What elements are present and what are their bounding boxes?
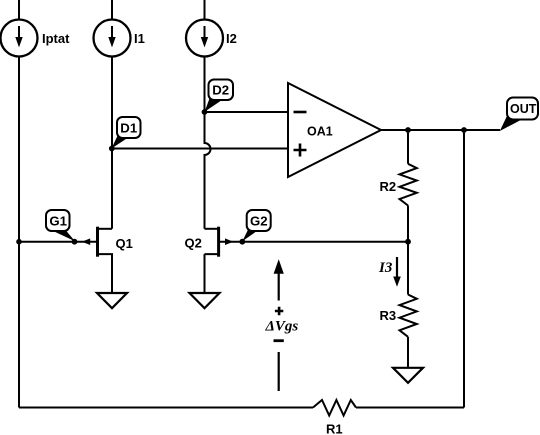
ground under R3 — [393, 368, 423, 383]
svg-text:R1: R1 — [326, 422, 343, 435]
transistor Q1 — [98, 227, 133, 293]
resistor R1 — [313, 400, 356, 435]
node G1 — [72, 239, 78, 245]
node R2/R3/gate junction — [405, 239, 411, 245]
svg-text:OA1: OA1 — [307, 125, 333, 139]
callout label G1 — [46, 210, 75, 241]
wire Q1 gate from left rail — [19, 241, 97, 243]
current source I2 — [186, 0, 237, 57]
svg-text:OUT: OUT — [510, 102, 537, 116]
ground under Q2 — [190, 293, 220, 308]
svg-text:D2: D2 — [212, 83, 229, 98]
callout label D2 — [205, 80, 233, 112]
callout label D1 — [112, 117, 141, 149]
svg-text:G2: G2 — [250, 213, 268, 228]
wire op-amp output to OUT — [381, 129, 500, 131]
node left-rail/gate junction — [16, 239, 22, 245]
current source I1 — [94, 0, 145, 57]
svg-text:I3: I3 — [378, 260, 393, 276]
svg-text:Iptat: Iptat — [42, 31, 70, 46]
callout label OUT — [500, 98, 538, 132]
resistor R3 — [380, 242, 417, 368]
svg-text:ΔVgs: ΔVgs — [265, 319, 299, 335]
current source Iptat — [1, 0, 71, 57]
callout label G2 — [242, 210, 270, 241]
svg-text:Q1: Q1 — [116, 236, 133, 251]
node D2 — [202, 109, 208, 115]
wire I1 branch down to Q1 drain — [111, 57, 113, 229]
wire bottom left segment — [19, 407, 313, 409]
svg-text:R3: R3 — [380, 308, 397, 323]
wire right rail from output down to bottom — [463, 130, 465, 408]
transistor Q2 — [185, 227, 219, 293]
wire D1 to op-amp non-inverting input — [112, 148, 288, 150]
node output/R2 — [405, 127, 411, 133]
node D1 — [109, 146, 115, 152]
node G2 — [239, 239, 245, 245]
svg-text:G1: G1 — [49, 213, 67, 228]
wire Q2 gate to R2/R3 node — [219, 241, 408, 243]
wire bottom right segment — [356, 407, 464, 409]
wire D2 to op-amp inverting input — [205, 111, 289, 113]
node output/right rail — [461, 127, 467, 133]
svg-text:I2: I2 — [226, 31, 237, 46]
ground under Q1 — [97, 293, 127, 308]
svg-text:R2: R2 — [380, 179, 397, 194]
svg-text:D1: D1 — [120, 121, 137, 136]
arrowhead on Q2 gate (pointing right) — [225, 238, 233, 245]
svg-text:Q2: Q2 — [185, 236, 202, 251]
op-amp OA1 — [288, 83, 381, 177]
wire left rail from Iptat down to bottom — [18, 57, 20, 408]
annotation delta-Vgs with plus/minus and arrow — [265, 259, 299, 391]
svg-text:I1: I1 — [134, 31, 145, 46]
resistor R2 — [380, 130, 417, 242]
wire I2 branch down to Q2 drain with hop over + input wire — [205, 57, 211, 229]
current label I3 with down arrow — [378, 257, 401, 287]
arrowhead on Q1 gate (pointing left) — [82, 238, 90, 245]
